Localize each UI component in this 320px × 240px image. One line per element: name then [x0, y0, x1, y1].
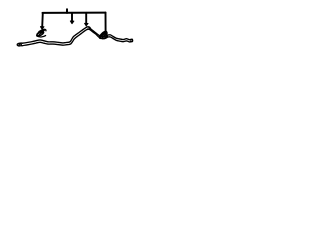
- arrow 2 line: [71, 13, 73, 21]
- left arrowhead: [40, 27, 44, 30]
- blob 2 right curl: [106, 31, 107, 36]
- blob 2 inner stroke: [102, 33, 105, 36]
- blob 1 scribble: [37, 30, 44, 36]
- water upper stroke: [22, 27, 132, 43]
- blob 2 base stroke: [101, 37, 107, 39]
- blob 2 scribble: [99, 31, 106, 38]
- arrow 3 line: [85, 13, 87, 24]
- arrow 2 head: [70, 21, 74, 24]
- water start curl: [17, 43, 23, 46]
- right drop line: [105, 13, 107, 32]
- hanger tick: [66, 9, 68, 13]
- left drop line: [41, 13, 44, 27]
- peak curl: [88, 27, 91, 29]
- top bar: [43, 12, 106, 14]
- blob 1 inner stroke: [39, 32, 43, 35]
- arrow 3 head: [85, 23, 89, 26]
- water lower stroke: [22, 29, 133, 46]
- water end knot: [130, 39, 133, 41]
- blob 1 base stroke: [37, 36, 46, 37]
- blob 1 tail hook: [39, 29, 46, 31]
